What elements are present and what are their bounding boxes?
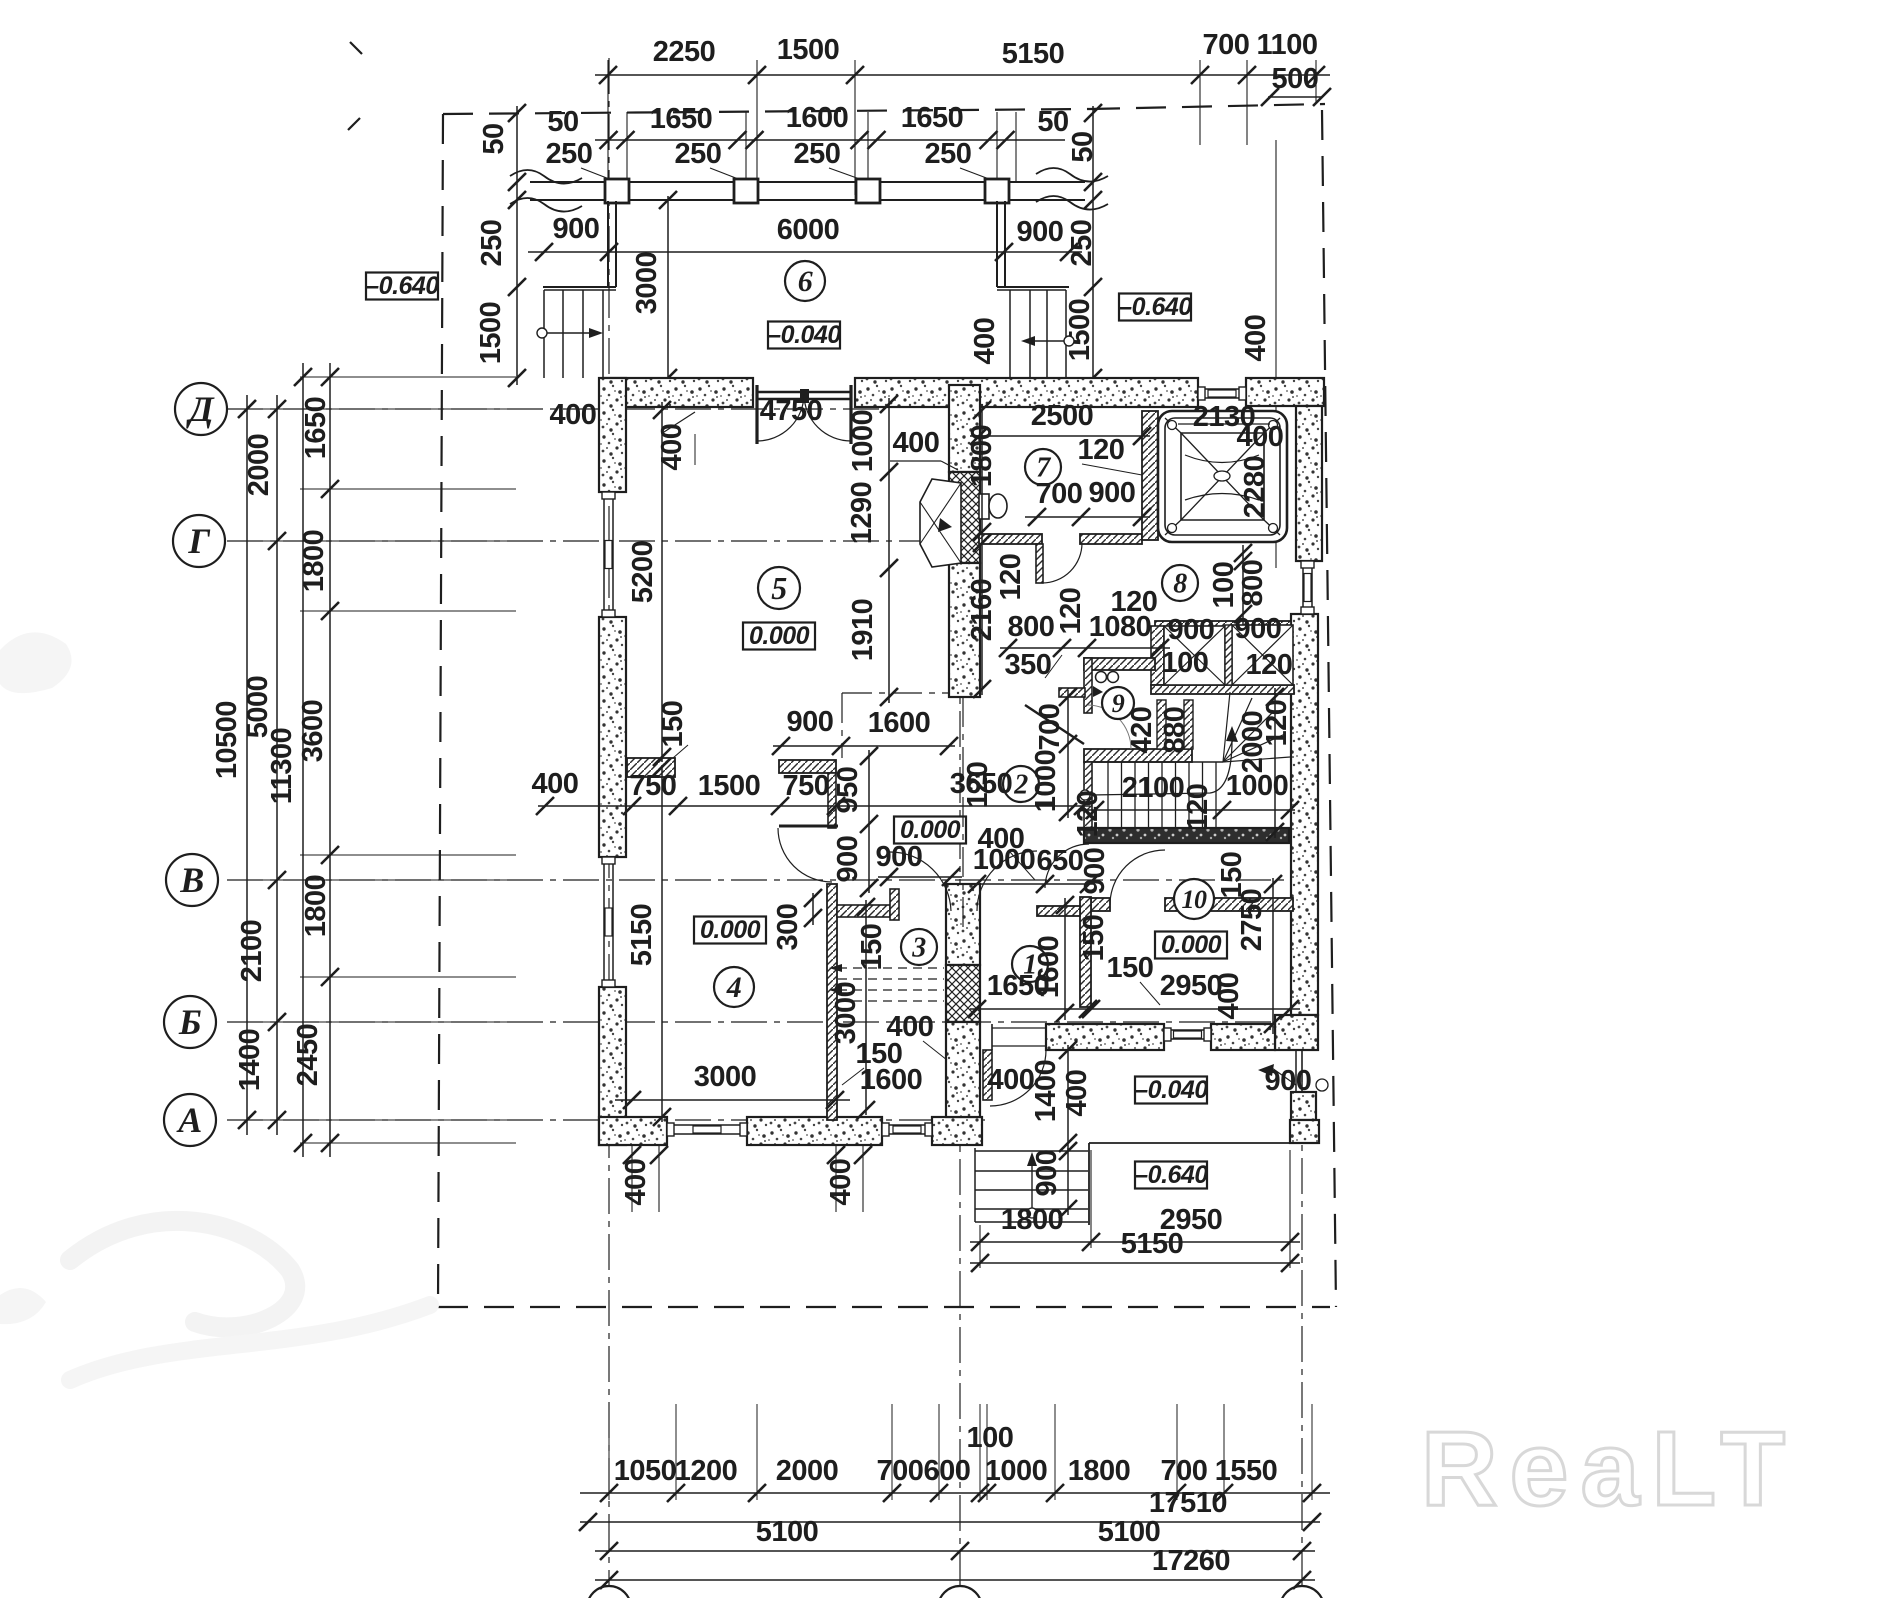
svg-text:50: 50 [1067,131,1099,162]
cell X right [1232,625,1293,685]
porch right chain [1092,106,1094,385]
svg-text:2100: 2100 [1122,772,1185,804]
svg-text:5150: 5150 [626,904,658,967]
porch deck outline [1089,1142,1290,1144]
central wall upper [949,385,980,472]
svg-text:1800: 1800 [1068,1455,1131,1487]
door room3 top [890,852,951,911]
svg-text:400: 400 [1240,315,1272,362]
svg-text:800: 800 [1008,611,1055,643]
watermark blob left [0,632,72,693]
axis extension lines left [227,408,515,410]
stairwell left wall [1084,762,1092,828]
dim 700/1000 left of stairs [1067,690,1069,818]
dim 950/900 vchain [868,750,870,893]
cell 880 wall a [1157,700,1166,749]
dim row 400/750/1500/750/3650 [538,805,1090,807]
svg-text:1500: 1500 [698,770,761,802]
axis circle G [173,515,225,567]
svg-text:120: 120 [1182,784,1214,831]
room3/4 partition [827,884,837,1120]
svg-text:0.000: 0.000 [1161,931,1222,959]
dim 1650/2950 row [970,1008,1300,1010]
dim chain 11300 [302,363,304,1157]
flue polygon room5 [920,479,961,567]
room7 bottom wall left [979,534,1042,544]
dim 3000 room4 [615,1099,850,1101]
level 0.000 room10 [1155,932,1227,959]
porch stairs left [543,290,545,378]
svg-text:120: 120 [1261,700,1293,747]
door 4750 jambs [755,385,758,444]
top extension lines [607,60,609,195]
room3 stairs dashed [838,967,944,969]
svg-text:250: 250 [476,220,508,267]
bath (jacuzzi) [1158,411,1287,542]
porch left chain [516,106,518,385]
svg-text:120: 120 [1246,649,1293,681]
sink room9 [1096,672,1107,683]
svg-text:–0.040: –0.040 [767,321,841,349]
svg-text:150: 150 [1107,952,1154,984]
bottom-right corner [1275,1015,1318,1050]
axis line 2 vertical [959,655,961,1586]
axis circle bottom 3 [1280,1586,1324,1598]
axis circle D [175,383,227,435]
svg-text:10: 10 [1182,885,1208,914]
dim 2100/1000 stairs [1088,809,1295,811]
bottom wall mid segment [747,1117,882,1145]
svg-text:1800: 1800 [966,425,998,488]
level -0.640 porch bottom [1135,1162,1207,1189]
room7 door stub [1036,544,1043,583]
door room9 leaf [1025,705,1084,744]
level 0.000 room4 [694,917,766,944]
dim 800/350/1080 [1000,647,1170,649]
dim chain 1650/1800/3600/1800/2450 [329,363,331,1157]
door room7 [1042,543,1082,583]
bottom wall left corner [599,1117,667,1145]
svg-text:1600: 1600 [786,102,849,134]
svg-text:6: 6 [798,265,813,298]
dim 5100/5100 [595,1550,1315,1552]
dim 1000/650 [970,883,1095,885]
porch side wall stub [983,1050,992,1100]
svg-text:350: 350 [1005,649,1052,681]
svg-text:Г: Г [187,521,210,561]
room1/10 partition [1080,897,1091,1007]
svg-text:1800: 1800 [300,875,332,938]
corner marks top-left [350,42,362,54]
svg-text:А: А [176,1100,202,1140]
axis line B [227,1021,1295,1023]
room10 top wall b [1165,898,1293,911]
top dim chain 2250/1500/5150/700/1100 [595,74,1330,76]
porch 900/6000/900 dim [528,251,1082,253]
svg-text:700: 700 [877,1455,924,1487]
svg-text:150: 150 [1216,852,1248,899]
svg-text:900: 900 [1089,477,1136,509]
svg-text:150: 150 [856,924,888,971]
porch right pier a [1291,1092,1316,1120]
svg-text:150: 150 [1078,915,1110,962]
level 0.000 corridor [894,817,966,844]
svg-text:400: 400 [550,399,597,431]
svg-text:4: 4 [726,971,742,1004]
room3 door jamb [890,889,899,920]
svg-text:50: 50 [547,106,578,138]
svg-text:120: 120 [1111,586,1158,618]
svg-text:3000: 3000 [694,1061,757,1093]
svg-text:400: 400 [620,1159,652,1206]
svg-text:1000: 1000 [973,844,1036,876]
room9 left wall [1084,658,1092,713]
svg-text:1650: 1650 [300,397,332,460]
dim 2750 room10 [1272,878,1274,1034]
svg-text:1500: 1500 [777,34,840,66]
svg-text:1000: 1000 [1030,750,1062,813]
room 8 circle [1162,565,1198,601]
svg-text:400: 400 [825,1159,857,1206]
dim chain 10500 [246,395,248,1135]
entrance steps [975,1150,1088,1152]
axis line 3 vertical [1301,1046,1303,1586]
svg-text:420: 420 [1126,707,1158,754]
room 4 circle [714,967,754,1007]
main stairs [1095,761,1223,763]
cells left separator [1151,626,1164,685]
right rooms bottom wall b [1211,1024,1275,1050]
svg-text:1050: 1050 [614,1455,677,1487]
window top wall right [1198,388,1246,390]
right wall main [1291,614,1318,1015]
porch beam break marks [510,170,582,184]
svg-text:17510: 17510 [1149,1487,1227,1519]
flue upper [949,472,980,563]
axis line V [227,879,1295,881]
room 3 circle [901,929,937,965]
svg-text:400: 400 [887,1011,934,1043]
top wall middle segment [855,378,1198,407]
entrance opening jambs [991,1024,993,1050]
window left wall lower [603,857,605,987]
svg-text:0.000: 0.000 [700,916,761,944]
label 100 leader [986,1452,988,1488]
svg-text:300: 300 [772,904,804,951]
svg-text:9: 9 [1112,689,1125,718]
top wall left segment [604,378,753,407]
svg-text:2000: 2000 [243,434,275,497]
svg-text:10500: 10500 [211,701,243,779]
room1 top stub [1037,906,1080,916]
room7 bottom wall right [1080,534,1142,544]
cells top partition [1155,621,1291,631]
svg-text:1400: 1400 [1030,1060,1062,1123]
bottom wall right segment [932,1117,982,1145]
svg-text:900: 900 [1235,613,1282,645]
svg-text:900: 900 [1031,1150,1063,1197]
axis circle A [164,1094,216,1146]
dim 5200 left [661,402,663,762]
svg-text:1290: 1290 [846,482,878,545]
dim 5150 porch [970,1262,1300,1264]
svg-text:–0.640: –0.640 [1134,1161,1208,1189]
svg-text:2: 2 [1013,770,1028,801]
svg-text:400: 400 [969,318,1001,365]
porch stairs right [1009,290,1011,378]
left wall middle [599,617,626,857]
room 9 circle [1102,687,1134,719]
svg-text:800: 800 [1237,560,1269,607]
svg-text:1600: 1600 [1033,936,1065,999]
500 underline [1268,96,1322,98]
axis circle bottom 2 [938,1586,982,1598]
svg-text:8: 8 [1173,569,1187,600]
porch top beam [530,181,1085,183]
level -0.640 left [366,273,438,300]
central wall bottom [946,1022,980,1117]
room7 right wall [1142,411,1158,540]
svg-text:–0.640: –0.640 [365,272,439,300]
bottom chain small [580,1492,1330,1494]
top wall right corner [1246,378,1324,406]
room 5 circle [758,567,800,609]
dim 2500 room7 [970,435,1150,437]
svg-text:1600: 1600 [860,1064,923,1096]
svg-text:1000: 1000 [1226,770,1289,802]
axis line 1 vertical [608,58,610,1586]
window left wall upper [603,492,605,617]
kitchen counter side [828,773,836,828]
flue lower [946,965,980,1022]
central wall mid [949,563,980,697]
svg-text:5200: 5200 [627,541,659,604]
room 1 circle [1012,946,1048,982]
svg-text:1500: 1500 [475,302,507,365]
svg-text:400: 400 [893,427,940,459]
svg-text:120: 120 [1072,791,1104,838]
axis circle bottom 1 [587,1586,631,1598]
svg-text:0.000: 0.000 [749,622,810,650]
porch right wall [996,201,998,287]
cell 880 wall b [1184,700,1193,749]
cells bottom partition [1151,685,1294,694]
svg-text:400: 400 [532,768,579,800]
svg-text:0.000: 0.000 [900,816,961,844]
dim 900/1600 kitchen [773,745,955,747]
kitchen counter bottom line [779,825,838,828]
svg-text:750: 750 [783,770,830,802]
svg-text:1650: 1650 [650,103,713,135]
svg-text:6000: 6000 [777,214,840,246]
svg-text:400: 400 [1213,973,1245,1020]
svg-text:120: 120 [1055,588,1087,635]
svg-text:2100: 2100 [236,920,268,983]
svg-text:2160: 2160 [966,579,998,642]
svg-text:700: 700 [1161,1455,1208,1487]
door entrance [990,1050,1046,1106]
svg-text:120: 120 [995,554,1027,601]
room 6 circle [785,261,825,301]
dim 5150 left [661,765,663,1122]
dim 2000 stairs [1274,688,1276,838]
svg-text:250: 250 [546,138,593,170]
porch column 4 [985,179,1009,203]
svg-text:3000: 3000 [830,982,862,1045]
svg-text:120: 120 [962,762,994,809]
left wall upper [599,378,626,492]
svg-text:900: 900 [1079,848,1111,895]
svg-text:650: 650 [1037,845,1084,877]
axis line G [227,540,985,542]
level -0.040 porch bottom [1135,1077,1207,1104]
svg-text:900: 900 [553,213,600,245]
room5/2 virtual boundary [962,697,964,932]
svg-text:50: 50 [478,123,510,154]
svg-text:900: 900 [1168,614,1215,646]
porch 3000 vdim [667,196,669,380]
axis circle V [166,854,218,906]
dim 1600 room1 [1064,898,1066,1020]
dim 1800/2160 vchain [981,404,983,695]
right wall top (bath side) [1296,406,1322,561]
window right wall [1302,561,1304,614]
svg-text:400: 400 [1237,421,1284,453]
dim 1000/1290/1910 vchain [888,398,890,703]
svg-text:ReaLT: ReaLT [1421,1410,1797,1528]
svg-text:400: 400 [656,424,688,471]
svg-text:250: 250 [675,138,722,170]
svg-text:5150: 5150 [1002,38,1065,70]
porch left wall [607,201,609,287]
svg-text:250: 250 [925,138,972,170]
left wall lower [599,987,626,1145]
room10 top wall a [1091,898,1110,911]
svg-text:2000: 2000 [776,1455,839,1487]
svg-text:4750: 4750 [760,395,823,427]
vdim 100/800 right [1242,545,1244,625]
dim 900 door corridor [878,876,962,878]
dim 17510 [580,1521,1320,1523]
kitchen counter top [779,760,836,773]
cell X left [1164,626,1225,685]
porch column 1 [605,179,629,203]
room3 jog stub [837,905,890,917]
toilet room7 [979,494,989,519]
svg-text:400: 400 [988,1064,1035,1096]
svg-text:5100: 5100 [756,1516,819,1548]
window right rooms bottom [1164,1029,1211,1031]
axis circle B [164,996,216,1048]
level -0.040 porch [768,322,840,349]
door room1 top [977,851,1037,911]
svg-text:900: 900 [787,706,834,738]
bottom chain extension lines [608,1404,610,1500]
svg-text:5100: 5100 [1098,1516,1161,1548]
door 650 hall [1045,844,1089,888]
svg-text:Д: Д [186,389,215,429]
porch ext lines [979,1225,981,1268]
svg-text:1500: 1500 [1064,299,1096,362]
svg-text:1800: 1800 [298,530,330,593]
svg-text:700: 700 [1034,704,1066,751]
level -0.640 right [1119,294,1191,321]
room9 door stub [1059,688,1085,697]
dim 700/900 room7 [1025,516,1150,518]
door kitchen room4 [778,828,832,882]
svg-text:600: 600 [924,1455,971,1487]
axis line D [227,408,880,410]
svg-text:120: 120 [1078,434,1125,466]
room 2 circle [1003,766,1039,802]
svg-text:250: 250 [1066,220,1098,267]
room5 low stub [627,758,675,777]
svg-text:900: 900 [832,836,864,883]
top dim chain 50/1650/1600/1650/50 [595,139,1065,141]
dim 300 rot [812,893,814,925]
svg-text:700: 700 [1203,29,1250,61]
svg-text:1800: 1800 [1001,1204,1064,1236]
dim 1800/2950 porch [970,1241,1300,1243]
svg-text:250: 250 [794,138,841,170]
central wall lower [946,884,980,965]
svg-text:5150: 5150 [1121,1228,1184,1260]
svg-text:–0.040: –0.040 [1134,1076,1208,1104]
svg-text:880: 880 [1159,707,1191,754]
svg-text:1400: 1400 [234,1029,266,1092]
axis line A [227,1119,985,1121]
door room10 [1110,850,1165,905]
svg-text:В: В [179,860,204,900]
svg-text:100: 100 [967,1422,1014,1454]
door 4750 right leaf [804,394,851,441]
svg-text:1000: 1000 [985,1455,1048,1487]
svg-text:1200: 1200 [675,1455,738,1487]
svg-text:2280: 2280 [1239,456,1271,519]
svg-text:17260: 17260 [1152,1545,1230,1577]
svg-text:–0.640: –0.640 [1118,293,1192,321]
svg-text:Б: Б [178,1002,201,1042]
svg-text:2450: 2450 [292,1024,324,1087]
porch column 3 [856,179,880,203]
right rooms bottom wall a [1046,1024,1164,1050]
room 7 circle [1025,449,1061,485]
window bottom wall right [882,1124,932,1126]
svg-text:5: 5 [771,570,787,606]
room 10 circle [1174,879,1214,919]
dim 17260 [595,1579,1315,1581]
room9 top wall [1084,658,1155,670]
svg-text:3000: 3000 [631,252,663,315]
porch right pier b [1290,1120,1319,1143]
porch column 2 [734,179,758,203]
svg-text:900: 900 [1017,216,1064,248]
svg-text:3: 3 [911,933,926,964]
svg-text:1650: 1650 [901,102,964,134]
cell separator [1225,625,1232,685]
door 4750 left leaf [757,394,804,441]
window bottom wall left [667,1124,747,1126]
room9 bottom wall [1084,749,1192,762]
svg-text:100: 100 [1162,647,1209,679]
svg-text:900: 900 [876,841,923,873]
svg-text:1910: 1910 [847,599,879,662]
dim chain 2000/5000/2100/1400 [276,395,278,1135]
svg-text:1600: 1600 [868,707,931,739]
svg-text:3600: 3600 [297,700,329,763]
svg-text:50: 50 [1037,106,1068,138]
svg-text:400: 400 [1061,1070,1093,1117]
